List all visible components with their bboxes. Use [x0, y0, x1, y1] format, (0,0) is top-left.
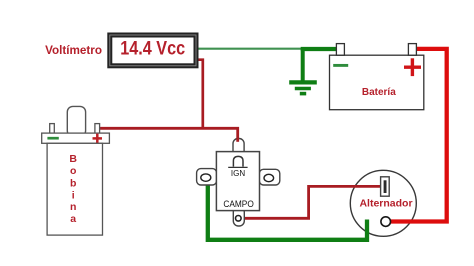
voltmeter display box U1 — [110, 35, 196, 66]
label Alternador — [359, 198, 412, 210]
regulator right mounting tab — [259, 169, 280, 185]
regulator bottom tab (CAMPO terminal) — [233, 207, 244, 226]
alternator case circle — [350, 170, 416, 236]
svg-text:IGN: IGN — [231, 169, 245, 178]
ignition coil tower — [67, 106, 85, 136]
svg-text:b: b — [70, 177, 76, 189]
battery plus sign — [404, 58, 421, 76]
wire: battery + to right rail down to alternator B+ (bright red) — [390, 49, 447, 222]
coil cap — [42, 133, 110, 143]
battery minus sign — [333, 64, 348, 67]
regulator top tab (IGN terminal) — [233, 139, 244, 157]
regulator body — [216, 152, 259, 211]
svg-text:o: o — [70, 165, 76, 177]
battery positive post — [408, 44, 416, 56]
svg-text:B: B — [69, 153, 77, 165]
label Batería — [362, 87, 396, 98]
coil minus sign — [47, 137, 58, 140]
svg-text:i: i — [72, 189, 75, 201]
alternator field terminal — [381, 177, 390, 196]
svg-text:n: n — [70, 201, 76, 213]
label IGN — [231, 169, 245, 178]
wire stub: red entering IGN tab — [236, 138, 239, 142]
right tab hole — [264, 174, 274, 181]
wire: junction to battery minus (green, thick) — [301, 47, 337, 51]
battery case — [330, 55, 424, 109]
label Voltímetro — [45, 44, 102, 57]
wire: regulator ground to alternator case (green, thick) — [208, 181, 367, 240]
coil plus sign — [93, 134, 103, 144]
svg-text:Batería: Batería — [362, 87, 396, 98]
svg-text:14.4 Vcc: 14.4 Vcc — [120, 38, 185, 60]
svg-text:a: a — [70, 213, 76, 225]
wire: voltmeter + down to ignition node (dark red) — [195, 60, 203, 129]
coil terminal - post — [50, 124, 55, 135]
wire: coil + to regulator IGN terminal (dark red) — [99, 128, 237, 141]
svg-text:CAMPO: CAMPO — [223, 199, 253, 209]
battery negative post — [336, 44, 344, 56]
regulator left mounting tab — [197, 169, 217, 185]
ground symbol — [289, 48, 317, 94]
ignition key icon — [228, 156, 247, 167]
wire: voltmeter to ground junction (green, thin) — [198, 48, 302, 50]
label Bobina (vertical) — [69, 153, 77, 225]
label CAMPO — [223, 199, 253, 209]
voltmeter reading 14.4 Vcc — [120, 38, 185, 60]
CAMPO terminal hole — [236, 216, 242, 222]
left tab hole — [201, 174, 211, 181]
coil body — [47, 143, 102, 235]
coil terminal + post — [95, 124, 100, 135]
svg-text:Voltímetro: Voltímetro — [45, 44, 102, 57]
alternator output stud B+ — [381, 217, 391, 227]
wire: regulator CAMPO to alternator field terminal (dark red) — [239, 186, 381, 218]
svg-text:Alternador: Alternador — [359, 198, 412, 210]
